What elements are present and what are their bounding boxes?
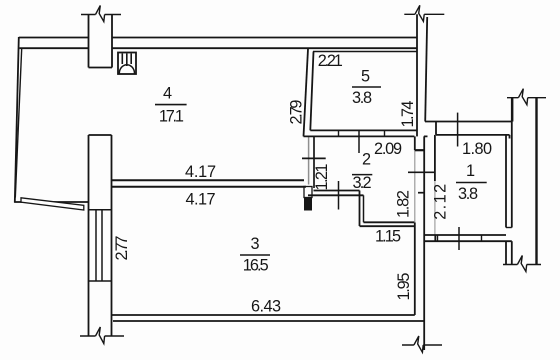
svg-text:17.1: 17.1 xyxy=(159,107,184,125)
svg-text:1.95: 1.95 xyxy=(395,273,413,301)
svg-text:1.74: 1.74 xyxy=(399,101,417,128)
room 5 bottom wall lower line xyxy=(304,135,428,137)
pillar top cap xyxy=(89,134,112,136)
svg-text:4.17: 4.17 xyxy=(186,191,216,209)
room 2 left wall outer line xyxy=(308,136,310,184)
bathroom right wall left line faded segment xyxy=(414,150,416,222)
wall step up to break top-right xyxy=(512,98,514,122)
balcony door leaf xyxy=(21,198,84,210)
wall stub below corridor left line xyxy=(505,241,507,264)
svg-text:6.43: 6.43 xyxy=(251,297,281,315)
divider wall rooms 4|3 upper line xyxy=(112,179,305,181)
break symbol bottom-right xyxy=(503,264,541,266)
room 1 right wall outer line xyxy=(511,98,513,228)
room 3 label underline xyxy=(240,254,270,256)
room 1 left wall inner line faded part xyxy=(434,181,436,235)
window W1 glazing lines xyxy=(96,210,102,281)
svg-text:2: 2 xyxy=(362,151,371,169)
divider wall rooms 4|3 lower line xyxy=(112,186,307,188)
room 3 bottom wall outer line xyxy=(112,314,415,316)
wall stub bottom cap xyxy=(89,67,113,69)
left outer wall xyxy=(15,37,19,203)
ventilation shaft box xyxy=(118,53,136,75)
break symbol top-left xyxy=(81,14,121,16)
balcony bottom wall xyxy=(14,201,88,203)
pillar right edge / room 3 left edge xyxy=(111,135,113,315)
corridor top wall upper line xyxy=(425,121,513,123)
svg-text:4: 4 xyxy=(163,84,172,102)
room 3 bottom wall inner line xyxy=(113,320,424,322)
corridor top wall lower line xyxy=(436,122,510,139)
svg-text:3.8: 3.8 xyxy=(458,185,478,203)
svg-text:16.5: 16.5 xyxy=(243,256,269,274)
break symbol top-right xyxy=(507,97,546,99)
middle wall right line xyxy=(310,52,313,131)
left wall tilted inner line xyxy=(15,49,21,198)
window tick in room 2 left wall xyxy=(302,157,326,159)
window W1 top sill xyxy=(89,209,112,211)
room 5 right wall inner line xyxy=(416,14,418,136)
corridor bottom wall upper line xyxy=(424,234,506,236)
room 5 top wall inner line xyxy=(313,51,417,53)
building party wall edge right xyxy=(535,98,537,265)
room 1 left wall inner line upper part xyxy=(434,135,436,181)
room 2 label underline xyxy=(352,174,372,176)
pillar left edge (continues down to lower break) xyxy=(88,135,90,336)
svg-text:1.21: 1.21 xyxy=(313,164,331,191)
svg-text:5: 5 xyxy=(361,68,370,86)
corridor bottom wall lower line xyxy=(424,240,512,242)
corridor bottom wall jamb strokes xyxy=(438,235,482,241)
room 1 right wall inner line xyxy=(505,135,507,228)
middle wall left line xyxy=(304,49,309,136)
bathroom step inner edge xyxy=(363,195,365,222)
entrance door tick xyxy=(458,227,460,250)
svg-text:1.80: 1.80 xyxy=(462,140,492,158)
wall stub above corridor bottom wall xyxy=(434,235,436,241)
svg-text:2.12: 2.12 xyxy=(432,184,450,220)
wall top outer line xyxy=(19,37,417,39)
wall top inner line xyxy=(20,47,418,49)
svg-text:2.09: 2.09 xyxy=(374,140,402,158)
bathroom bottom wall lower line xyxy=(360,225,415,227)
window tick room 1 top wall xyxy=(457,113,459,147)
room 1 right wall bottom cap xyxy=(506,227,512,229)
break symbol top-middle xyxy=(404,13,444,15)
wall stub to upper neighbour left edge xyxy=(88,15,90,68)
wall stub below corridor right line xyxy=(511,241,513,264)
svg-text:1: 1 xyxy=(466,162,475,180)
short tick left of wall xyxy=(418,192,424,194)
room 5 door jamb strokes xyxy=(339,130,385,136)
ventilation shaft arc xyxy=(119,65,134,74)
wall stub to upper neighbour right edge xyxy=(111,15,113,68)
svg-text:3.2: 3.2 xyxy=(353,174,372,192)
ventilation shaft hatch lines xyxy=(122,54,131,67)
bathroom step left edge xyxy=(359,191,361,227)
bathroom right wall right line xyxy=(423,136,425,350)
room 2 door tick xyxy=(338,181,340,210)
svg-text:3: 3 xyxy=(251,235,260,253)
jamb box at room 2 door xyxy=(304,187,312,198)
svg-text:2.21: 2.21 xyxy=(318,52,343,70)
svg-text:2.77: 2.77 xyxy=(113,236,131,261)
niche cap in wall xyxy=(415,149,424,151)
bathroom bottom wall upper line xyxy=(364,221,415,223)
bathroom right wall left line upper part xyxy=(414,136,416,150)
room 1 label underline xyxy=(456,182,487,184)
break symbol bottom-left xyxy=(80,335,124,337)
window W1 bottom sill xyxy=(89,280,112,282)
room 5 right wall outer line xyxy=(425,17,427,122)
bathroom right wall left line lower part xyxy=(414,223,416,316)
room 4 label underline xyxy=(155,104,187,106)
room 5 label underline xyxy=(352,86,381,88)
window tick in bathroom right wall xyxy=(408,171,435,173)
solid wall post below jamb xyxy=(304,198,312,211)
svg-text:2.79: 2.79 xyxy=(288,100,306,125)
break symbol bottom-middle xyxy=(402,344,442,346)
bottom-left wall stub xyxy=(111,315,113,336)
room 2 left wall inner line xyxy=(313,136,315,188)
svg-text:1.15: 1.15 xyxy=(375,228,401,246)
svg-text:4.17: 4.17 xyxy=(185,163,216,181)
room 2 bottom wall lower line xyxy=(308,194,364,196)
room 5 door tick xyxy=(358,131,360,153)
room 2 bottom wall upper line xyxy=(314,190,360,192)
svg-text:1.82: 1.82 xyxy=(395,190,413,218)
room 5 bottom wall upper line xyxy=(310,129,417,131)
svg-text:3.8: 3.8 xyxy=(352,89,372,107)
